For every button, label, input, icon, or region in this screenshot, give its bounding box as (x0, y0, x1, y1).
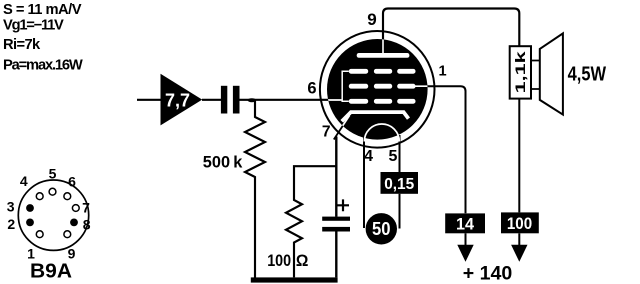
svg-text:Ri=7k: Ri=7k (3, 37, 41, 53)
svg-text:Pa=max.16W: Pa=max.16W (3, 57, 83, 73)
pin labels (307, 10, 446, 165)
pin2 filled (70, 219, 78, 227)
svg-text:4: 4 (20, 173, 28, 189)
svg-text:9: 9 (367, 10, 376, 29)
heater arc (364, 124, 399, 142)
anode pin 9 wire top (383, 9, 519, 47)
cathode lead diag (342, 116, 350, 128)
svg-text:4: 4 (364, 148, 373, 165)
ground rail (251, 277, 338, 282)
svg-text:5: 5 (389, 148, 398, 165)
svg-text:7,7: 7,7 (165, 90, 190, 111)
grid row 2 (349, 84, 368, 89)
svg-text:Vg1=−11V: Vg1=−11V (3, 17, 64, 33)
box 0,15 (381, 172, 419, 194)
wire below 1,1k (518, 99, 520, 213)
pin 6 lead inside (328, 99, 343, 101)
svg-text:7: 7 (322, 124, 331, 141)
svg-text:2: 2 (7, 216, 15, 232)
svg-text:3: 3 (7, 199, 15, 215)
resistor 1,1k (510, 46, 531, 98)
tube U1 envelope disc (327, 39, 428, 140)
resistor 100 ohm (286, 166, 336, 277)
svg-text:5: 5 (49, 165, 57, 181)
pin9 (36, 193, 43, 200)
svg-text:1: 1 (438, 64, 446, 80)
box 14 (445, 213, 485, 233)
svg-text:S = 11 mA/V: S = 11 mA/V (3, 2, 82, 18)
pin1 (64, 231, 71, 238)
svg-text:14: 14 (456, 214, 475, 233)
arrow 100 (511, 245, 527, 262)
grid bracket (342, 71, 349, 101)
tube internals (white on disc) (328, 39, 429, 128)
screen pin 1 wire (415, 86, 466, 213)
svg-text:0,15: 0,15 (384, 176, 414, 193)
capacitor C1 (221, 86, 227, 114)
pin5 (64, 193, 71, 200)
pin holes: open 1,4,5,6,7,9; filled 2,3,8 (36, 188, 79, 237)
grid row 3 (349, 99, 368, 104)
svg-text:50: 50 (372, 219, 391, 239)
speaker stubs (531, 61, 540, 90)
anode lead (382, 39, 384, 54)
pin3 filled (26, 219, 34, 227)
svg-text:1: 1 (27, 246, 35, 262)
anode bar (357, 53, 410, 58)
svg-text:6: 6 (307, 80, 316, 98)
svg-text:+ 140: + 140 (463, 264, 513, 284)
pin6 (72, 205, 79, 212)
svg-text:9: 9 (68, 246, 76, 262)
amplifier triangle 7,7 (161, 74, 203, 126)
svg-text:100: 100 (507, 214, 532, 233)
row2 to pin1 (414, 85, 429, 87)
pin7 (36, 231, 43, 238)
plus sign (337, 199, 349, 211)
B9A socket (18, 180, 88, 250)
heater pin 5 wire (399, 135, 401, 229)
svg-text:6: 6 (68, 174, 76, 190)
capacitor C2 electrolytic (322, 217, 350, 221)
arrow 14 (457, 245, 473, 262)
heater pin 4 wire (363, 135, 365, 228)
svg-text:B9A: B9A (30, 261, 72, 283)
circle 50 (366, 213, 397, 244)
tube envelope circle (320, 31, 435, 148)
socket pin numbers (7, 165, 91, 261)
svg-text:100: 100 (267, 251, 291, 270)
box 100 (501, 212, 539, 233)
speaker horn (540, 33, 563, 114)
wire to grid (240, 99, 331, 101)
cathode (342, 112, 409, 121)
wire input (137, 99, 161, 101)
svg-text:1,1k: 1,1k (513, 51, 528, 94)
node junction (248, 98, 256, 102)
spec text block (3, 2, 83, 73)
wire (202, 99, 221, 101)
svg-text:8: 8 (83, 217, 91, 233)
svg-text:4,5W: 4,5W (568, 64, 606, 86)
resistor 500k (245, 100, 265, 278)
svg-text:Ω: Ω (296, 251, 309, 270)
wire cathode down (334, 116, 350, 140)
svg-text:500 k: 500 k (203, 152, 243, 171)
svg-text:7: 7 (82, 200, 90, 216)
grid row 1 (349, 69, 368, 74)
